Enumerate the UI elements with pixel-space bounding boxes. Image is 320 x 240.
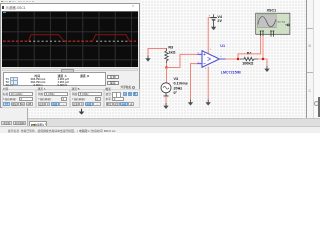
wire op-amp V+ pin up to V4: [208, 18, 210, 54]
oscilloscope instrument icon XSC1: [256, 13, 290, 36]
label V3: [174, 77, 179, 81]
resistor R3: [165, 48, 168, 63]
design toolbox bottom-left: [0, 108, 28, 126]
SCHEMATIC SVG: [0, 0, 320, 133]
svg-text:1kΩ: 1kΩ: [168, 50, 175, 54]
svg-text:7: 7: [210, 49, 212, 51]
svg-text:Ext Trig: Ext Trig: [278, 20, 286, 23]
op-amp U1 LMC7215IM: [197, 51, 226, 67]
tab strip: [28, 118, 320, 126]
ground (op-amp V-): [206, 100, 211, 106]
label 20Hz: [174, 86, 183, 90]
svg-text:6: 6: [220, 56, 222, 58]
ground (below V4): [211, 24, 216, 30]
wire node down to V3: [166, 68, 168, 83]
svg-text:0°: 0°: [174, 91, 178, 95]
svg-text:U1: U1: [220, 44, 225, 48]
svg-text:2: 2: [205, 68, 207, 70]
svg-text:100kΩ: 100kΩ: [242, 62, 253, 66]
resistor R4: [240, 57, 258, 60]
wire R4 to ground (output net): [258, 59, 267, 67]
ground (inverting input): [188, 100, 193, 106]
wire R3 bottom to node: [166, 63, 168, 68]
svg-text:20Hz: 20Hz: [174, 86, 183, 90]
ground (output net): [264, 66, 269, 72]
svg-text:0.1Vrms: 0.1Vrms: [174, 82, 188, 86]
svg-text:2V: 2V: [217, 19, 222, 23]
wire scope A+ probe to op-amp output node: [238, 36, 261, 59]
wire ground to op-amp inverting input: [191, 64, 198, 101]
sheet border column with row letters: [306, 0, 314, 118]
node junction (A+ tap): [237, 58, 239, 60]
op-amp pin numbers: [198, 49, 223, 70]
schematic canvas with dot grid: [0, 0, 307, 118]
wire from ground to R3 top: [148, 49, 167, 57]
node junction (R3/V3/signal): [165, 66, 167, 68]
label 0deg: [174, 91, 178, 95]
mouse cursor (down arrow) on canvas: [79, 109, 85, 115]
vertical scrollbar: [313, 0, 320, 118]
display scrollbar: [2, 68, 138, 72]
label 100kΩ: [242, 62, 253, 66]
svg-text:XSC1: XSC1: [267, 8, 277, 12]
AC source V3: [161, 83, 171, 96]
label 2V: [217, 19, 222, 23]
ground (below V3): [163, 103, 168, 109]
label LMC7215IM: [221, 70, 241, 74]
wire op-amp V- pin to ground: [207, 66, 209, 100]
buttons: [107, 75, 120, 79]
wire scope A- probe to R4 right node: [262, 36, 264, 59]
control groups: [1, 87, 139, 107]
svg-text:V3: V3: [174, 77, 179, 81]
battery V4: [210, 14, 216, 25]
wire op-amp output to R4: [226, 58, 241, 60]
svg-text:R3: R3: [168, 45, 173, 49]
scope display: [2, 11, 138, 67]
status bar: [0, 126, 320, 133]
wire V3 bottom to ground: [165, 96, 167, 104]
oscilloscope window XSC1 (front panel): [0, 3, 140, 108]
toolbar sliver at very top: [0, 0, 141, 4]
label 1kΩ: [168, 50, 175, 54]
label 0.1Vrms: [174, 82, 188, 86]
battery V4 plus mark: [209, 15, 211, 18]
svg-text:LMC7215IM: LMC7215IM: [221, 70, 241, 74]
ground (R3 top net): [145, 56, 150, 62]
label U1: [220, 44, 225, 48]
readout panel: [3, 72, 106, 86]
label R4: [247, 52, 253, 56]
label V4: [217, 15, 222, 19]
wire node to op-amp non-inverting input: [167, 54, 198, 67]
label R3: [168, 45, 173, 49]
label XSC1: [267, 8, 277, 12]
node junction (A- tap): [262, 58, 264, 60]
